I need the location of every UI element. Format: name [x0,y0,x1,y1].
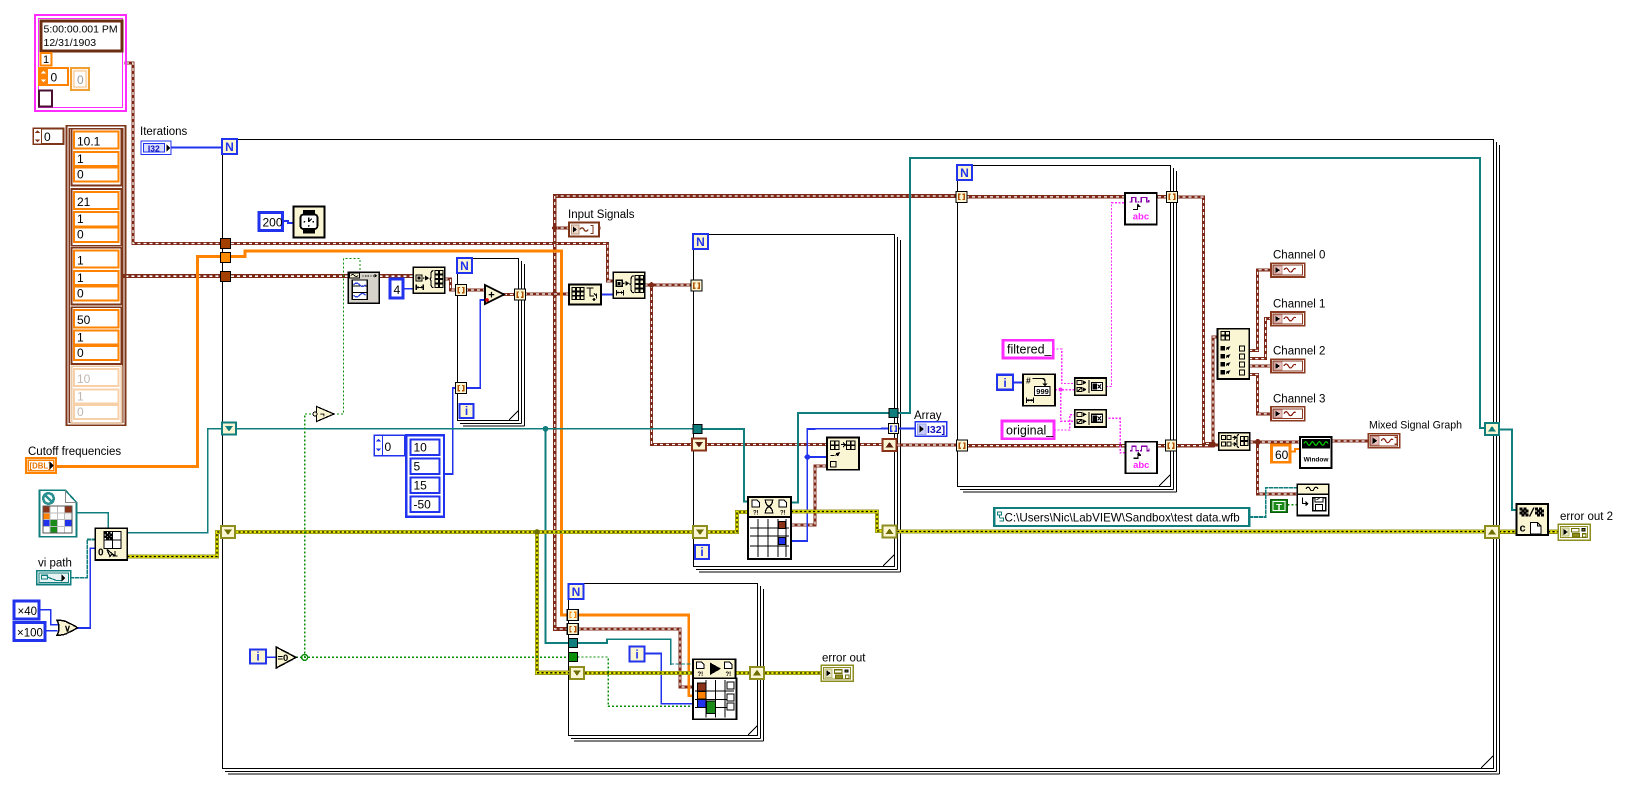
svg-text:N: N [960,166,969,180]
svg-text:?!: ?! [780,511,786,517]
svg-text:Channel 0: Channel 0 [1273,250,1325,262]
svg-text:0: 0 [77,228,84,242]
svg-text:1: 1 [77,389,84,403]
svg-text:?!: ?! [698,672,704,678]
svg-text:999: 999 [1036,387,1049,396]
svg-text:1: 1 [77,271,84,285]
svg-text:error out 2: error out 2 [1560,511,1613,523]
svg-text:1: 1 [43,54,49,66]
svg-text:5: 5 [414,460,421,474]
svg-text:N: N [460,259,469,273]
svg-text:10.1: 10.1 [77,135,101,149]
svg-text:c: c [1520,523,1526,535]
svg-text:50: 50 [77,313,91,327]
svg-text:200: 200 [263,216,283,230]
svg-text:¬: ¬ [320,410,325,419]
svg-text:?!: ?! [726,672,732,678]
svg-text:+: + [488,290,494,302]
svg-text:0: 0 [44,130,51,144]
svg-text:filtered_: filtered_ [1007,343,1053,357]
svg-text:C:\Users\Nic\LabVIEW\Sandbox\t: C:\Users\Nic\LabVIEW\Sandbox\test data.w… [1005,512,1240,525]
svg-text:I32: I32 [148,143,160,153]
svg-text:?!: ?! [753,511,759,517]
svg-text:Channel 1: Channel 1 [1273,299,1325,311]
svg-text:Window: Window [1304,457,1330,464]
svg-text:1: 1 [77,212,84,226]
svg-text:1: 1 [77,254,84,268]
svg-text:1: 1 [77,331,84,345]
svg-text:∨: ∨ [64,624,71,635]
svg-text:i: i [465,404,468,418]
svg-text:-50: -50 [414,498,432,512]
svg-text:N: N [225,140,234,154]
svg-text:=0: =0 [278,653,289,664]
svg-text:Cutoff frequencies: Cutoff frequencies [28,446,121,458]
svg-text:Channel 3: Channel 3 [1273,393,1325,405]
svg-text:i: i [635,648,638,662]
svg-text:0: 0 [77,73,84,87]
svg-text:60: 60 [1275,448,1289,462]
svg-text:Iterations: Iterations [140,126,188,138]
svg-text:15: 15 [414,479,428,493]
svg-text:Channel 2: Channel 2 [1273,346,1325,358]
svg-text:4: 4 [394,283,401,297]
svg-text:10: 10 [414,441,428,455]
svg-text:12/31/1903: 12/31/1903 [44,37,97,49]
svg-text:Input Signals: Input Signals [568,209,635,221]
svg-text:5:00:00.001 PM: 5:00:00.001 PM [44,24,118,36]
svg-text:Array: Array [914,410,942,422]
svg-text:original_: original_ [1006,424,1054,438]
svg-text:0: 0 [51,71,58,85]
svg-text:1: 1 [77,152,84,166]
svg-text:N: N [572,585,581,599]
svg-text:×40: ×40 [18,606,38,618]
svg-text:0: 0 [385,440,392,454]
svg-text:21: 21 [77,195,91,209]
svg-text:I32]: I32] [927,424,945,436]
svg-text:T: T [1276,502,1282,513]
svg-text:N: N [696,235,705,249]
svg-text:i: i [1003,376,1006,390]
svg-text:0: 0 [77,286,84,300]
svg-text:[DBL]: [DBL] [30,462,52,471]
svg-text:#: # [1026,376,1031,386]
svg-text:Mixed Signal Graph: Mixed Signal Graph [1369,420,1462,432]
svg-text:i: i [700,545,703,559]
svg-text:0: 0 [98,548,104,559]
svg-text:i: i [256,650,259,664]
svg-text:×100: ×100 [17,628,43,640]
svg-text:0: 0 [77,346,84,360]
svg-text:abc: abc [1133,212,1149,223]
svg-text:error out: error out [822,653,866,665]
svg-text:0: 0 [77,167,84,181]
svg-text:abc: abc [1133,460,1149,471]
svg-text:10: 10 [77,372,91,386]
svg-text:0: 0 [77,405,84,419]
svg-text:vi path: vi path [38,558,72,570]
